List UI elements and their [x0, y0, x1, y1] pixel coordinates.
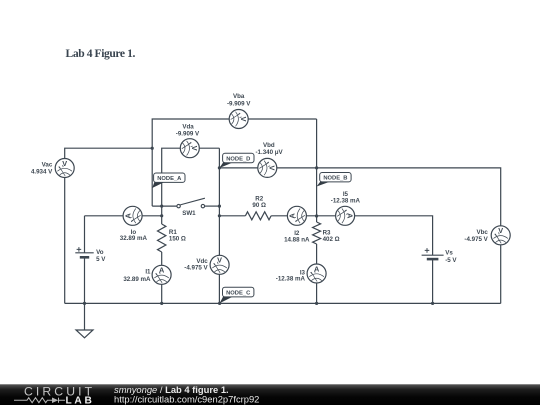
- svg-text:-4.975 V: -4.975 V: [464, 236, 488, 243]
- svg-text:4.934 V: 4.934 V: [31, 169, 53, 176]
- node dot I1 bottom: [160, 302, 163, 305]
- svg-text:150 Ω: 150 Ω: [169, 236, 186, 243]
- svg-text:A: A: [159, 266, 165, 275]
- wire I5 to Vs: [355, 216, 433, 255]
- svg-text:V: V: [239, 117, 248, 122]
- node dot NODE_C bottom: [218, 302, 221, 305]
- wire H3 (Vda wire): [162, 148, 220, 206]
- wire I2 to I5: [306, 215, 335, 217]
- svg-text:14.88 nA: 14.88 nA: [284, 236, 310, 243]
- svg-text:NODE_D: NODE_D: [226, 157, 250, 163]
- ammeter I2: [287, 206, 306, 225]
- svg-text:Vs: Vs: [445, 250, 453, 257]
- svg-text:V: V: [190, 146, 199, 151]
- voltmeter Vbd: [258, 158, 277, 177]
- node dot V5xH7: [218, 214, 221, 217]
- wire H5 (switch wire): [152, 205, 177, 207]
- resistor R1: [158, 224, 166, 252]
- node dot V5xH5: [218, 205, 221, 208]
- wire H4 (Vbd wire to Vbc): [219, 168, 500, 235]
- svg-text:NODE_C: NODE_C: [226, 291, 251, 297]
- svg-text:A: A: [123, 212, 132, 218]
- node flag NODE_C: [220, 287, 254, 303]
- node dot V4xH5: [160, 205, 163, 208]
- node flag NODE_B: [317, 173, 352, 187]
- node dot V4xH6: [160, 214, 163, 217]
- wire H2 (Vac top wire): [65, 148, 153, 168]
- node dot V6xH7: [315, 214, 318, 217]
- ammeter I1: [152, 265, 171, 284]
- node dot V5xH4: [218, 166, 221, 169]
- svg-text:NODE_A: NODE_A: [157, 176, 182, 182]
- svg-text:-4.975 V: -4.975 V: [184, 265, 208, 272]
- wire V4 (R1 branch): [161, 206, 163, 224]
- svg-text:Vda: Vda: [182, 123, 194, 130]
- svg-text:32.89 mA: 32.89 mA: [123, 276, 151, 283]
- svg-text:Vba: Vba: [233, 93, 245, 100]
- svg-text:-9.909 V: -9.909 V: [227, 101, 251, 108]
- node dot Vs bottom: [431, 302, 434, 305]
- node dot V6xH4: [315, 166, 318, 169]
- svg-text:I1: I1: [145, 269, 151, 276]
- svg-text:V: V: [498, 226, 503, 235]
- svg-text:5 V: 5 V: [96, 256, 106, 263]
- svg-text:-12.38 mA: -12.38 mA: [276, 275, 306, 282]
- svg-text:-12.38 mA: -12.38 mA: [331, 198, 361, 205]
- svg-text:-1.340 μV: -1.340 μV: [256, 149, 284, 156]
- svg-text:-9.909 V: -9.909 V: [176, 131, 200, 138]
- node dot Vo bottom: [83, 302, 86, 305]
- svg-text:LAB: LAB: [66, 396, 95, 405]
- voltmeter Vda: [180, 139, 199, 158]
- voltmeter Vba: [229, 110, 248, 129]
- svg-text:A: A: [314, 264, 320, 273]
- switch SW1: [177, 198, 205, 208]
- svg-text:NODE_B: NODE_B: [323, 176, 347, 182]
- wire V1 (Vac down): [64, 168, 66, 303]
- svg-text:SW1: SW1: [182, 210, 196, 217]
- wire Vs to bottom: [432, 259, 434, 303]
- wire Vbc to bottom: [500, 235, 502, 303]
- wire bottom rail: [65, 302, 501, 304]
- svg-text:V: V: [217, 256, 222, 265]
- node dot H2xV3: [151, 147, 154, 150]
- svg-text:http://circuitlab.com/c9en2p7f: http://circuitlab.com/c9en2p7fcrp92: [114, 394, 259, 405]
- wire H1 top (Vba wire): [152, 119, 316, 148]
- voltmeter Vdc: [210, 255, 229, 274]
- svg-text:Lab 4 Figure 1.: Lab 4 Figure 1.: [66, 47, 136, 60]
- svg-text:32.89 mA: 32.89 mA: [120, 235, 148, 242]
- wire V2 (Vo branch): [84, 216, 86, 253]
- wire V6 (NODE_B vertical): [316, 119, 318, 216]
- ammeter Io: [123, 206, 142, 225]
- svg-text:Vbd: Vbd: [263, 142, 275, 149]
- resistor R3: [313, 222, 321, 244]
- voltmeter Vac: [55, 159, 74, 178]
- svg-text:V: V: [62, 159, 67, 168]
- wire V5 (NODE_D vertical): [218, 148, 220, 303]
- battery Vs: [422, 248, 444, 259]
- svg-text:90 Ω: 90 Ω: [252, 202, 266, 209]
- svg-text:A: A: [345, 213, 354, 219]
- node dot I3 bottom: [315, 302, 318, 305]
- svg-text:-5 V: -5 V: [445, 257, 457, 264]
- resistor R2: [245, 212, 271, 220]
- ammeter I5: [336, 206, 355, 225]
- footer bar: [0, 384, 540, 405]
- wire R1 to I1: [161, 252, 163, 303]
- wire SW1 right segment: [205, 205, 220, 207]
- wire V3 (NODE_A vertical): [151, 148, 153, 206]
- wire H6 (Io wire): [85, 215, 162, 217]
- node flag NODE_A: [152, 173, 185, 188]
- svg-text:A: A: [288, 212, 297, 218]
- wire R3 branch: [316, 216, 318, 222]
- svg-text:Vac: Vac: [42, 162, 53, 169]
- voltmeter Vbc: [491, 226, 510, 245]
- ground: [84, 303, 86, 330]
- wire V2 lower (Vo to bottom): [84, 257, 86, 303]
- wire R2 to I2: [271, 215, 287, 217]
- battery Vo: [75, 247, 93, 257]
- wire R3 to I3: [316, 244, 318, 303]
- wire H7 (R2 wire): [219, 215, 245, 217]
- svg-text:V: V: [268, 165, 277, 170]
- node flag NODE_D: [219, 153, 254, 168]
- footer logo schematic squiggle: [14, 398, 65, 403]
- svg-text:402 Ω: 402 Ω: [323, 236, 340, 243]
- ammeter I3: [307, 264, 326, 283]
